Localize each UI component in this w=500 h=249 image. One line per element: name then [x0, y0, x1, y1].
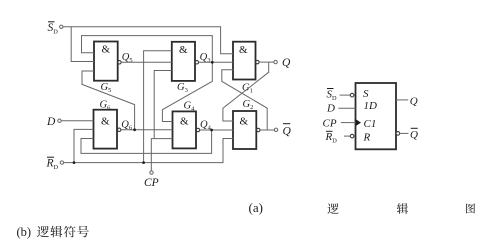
symbol output Q-bar with bubble	[396, 128, 418, 141]
wire Q4 output to G2 middle input	[200, 129, 233, 131]
wire D input to G6 top input	[61, 120, 93, 122]
symbol input CP with dynamic indicator	[323, 117, 362, 129]
wire R_D-bar rail to G2 bottom input	[64, 139, 233, 163]
caption char tu (a)	[466, 203, 475, 213]
symbol output Q	[396, 95, 418, 107]
wire Q feedback diagonal to G2 top input	[223, 62, 269, 121]
svg-text:D: D	[326, 103, 335, 115]
wire Q6 output to G4 middle input	[121, 129, 173, 131]
svg-text:&: &	[101, 116, 110, 128]
svg-text:C1: C1	[364, 118, 377, 130]
symbol input D	[326, 103, 356, 115]
wire Q4 loop back to G6 bottom input	[81, 130, 212, 153]
svg-text:Q: Q	[410, 95, 418, 107]
node R_D-bar / G6 riser junction	[73, 161, 76, 164]
caption char luo (b)	[37, 226, 49, 237]
NAND gate G2	[233, 99, 260, 149]
input terminal S_D-bar	[48, 22, 64, 36]
wire G1 output to Q terminal	[259, 61, 274, 63]
svg-text:CP: CP	[323, 117, 337, 129]
symbol input S_D-bar with bubble	[327, 88, 354, 102]
flip-flop symbol body U1	[356, 83, 397, 149]
svg-text:Q: Q	[282, 57, 291, 69]
wire CP riser continuation to G3 bottom input	[154, 71, 172, 139]
NAND gate G4	[173, 100, 200, 148]
wire Q5 output to G3 middle input	[121, 61, 172, 63]
wire Q3 feedback rail to G5 top input	[82, 36, 213, 63]
svg-text:&: &	[102, 44, 111, 56]
input terminal CP	[144, 171, 159, 189]
caption char ji (a)	[397, 203, 408, 214]
wire Q-bar feedback diagonal to G1 bottom input	[222, 70, 267, 130]
svg-text:Q: Q	[283, 125, 292, 137]
input terminal D	[46, 116, 61, 128]
NAND gate G5	[94, 42, 121, 95]
node Q3 junction	[211, 61, 214, 64]
wire R_D-bar branch up to G6 middle input	[74, 129, 94, 162]
svg-text:Q: Q	[410, 129, 418, 141]
NAND gate G6	[94, 100, 121, 149]
caption char hao (b)	[77, 226, 89, 237]
symbol input R_D-bar with bubble	[325, 131, 354, 145]
wire Q3 diagonal down to G4 top input	[162, 62, 212, 121]
svg-text:&: &	[239, 44, 248, 56]
node R_D-bar / G3 riser junction	[142, 161, 145, 164]
wire G2 output to Q-bar terminal	[260, 129, 274, 131]
wire R_D-bar riser to G3 top input	[144, 51, 172, 163]
svg-text:R: R	[363, 131, 371, 143]
svg-text:&: &	[240, 116, 249, 128]
svg-text:&: &	[179, 44, 188, 56]
caption char fu (b)	[64, 226, 76, 238]
wire Q3 output to G1 middle input	[199, 61, 233, 63]
NAND gate G1	[233, 42, 259, 95]
svg-text:1D: 1D	[364, 100, 378, 112]
svg-text:D: D	[46, 116, 56, 128]
wire Q6 diagonal up to G5 bottom input	[82, 71, 135, 130]
input terminal R_D-bar	[46, 157, 64, 171]
svg-text:(a): (a)	[249, 200, 263, 215]
svg-text:CP: CP	[144, 177, 159, 189]
output terminal Q-bar	[274, 124, 291, 138]
svg-text:(b): (b)	[17, 225, 32, 239]
NAND gate G3	[172, 42, 199, 94]
wire S_D-bar rail to G1 top input	[63, 27, 233, 54]
svg-text:S: S	[363, 88, 369, 100]
caption char ji (b)	[50, 226, 62, 238]
node Q4 junction	[210, 129, 213, 132]
svg-text:&: &	[180, 116, 189, 128]
output terminal Q	[274, 57, 291, 69]
caption char luo (a)	[327, 203, 338, 214]
wire CP riser to G4 bottom input	[151, 139, 172, 171]
wire S_D-bar branch down to G5 middle input	[71, 27, 94, 62]
node Q6 junction	[133, 128, 136, 131]
